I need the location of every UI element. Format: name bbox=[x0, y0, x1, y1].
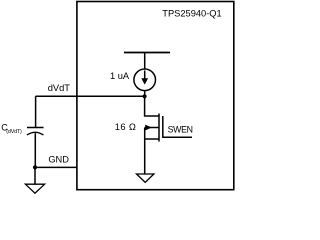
wire capacitor top lead bbox=[35, 96, 37, 127]
svg-text:(dVdT): (dVdT) bbox=[6, 129, 22, 135]
transistor Q1 drain stub bbox=[144, 115, 159, 117]
wire to external ground bbox=[34, 167, 36, 184]
svg-text:SWEN: SWEN bbox=[168, 124, 193, 134]
svg-text:TPS25940-Q1: TPS25940-Q1 bbox=[162, 8, 221, 18]
transistor Q1 body stub bbox=[145, 127, 159, 129]
transistor Q1 source stub bbox=[145, 138, 159, 140]
transistor Q1 body arrow bbox=[145, 125, 152, 131]
wire capacitor bottom lead bbox=[34, 133, 36, 167]
wire body-source tie to ground bbox=[144, 128, 146, 175]
svg-text:dVdT: dVdT bbox=[48, 83, 71, 93]
wire gate lead SWEN net bbox=[163, 136, 192, 138]
transistor Q1 channel bbox=[158, 114, 160, 142]
wire node to drain bbox=[144, 96, 146, 116]
node junction dot bbox=[143, 94, 147, 98]
svg-text:16 Ω: 16 Ω bbox=[115, 121, 136, 132]
wire dVdT pin to node bbox=[36, 95, 145, 97]
transistor Q1 gate plate bbox=[162, 116, 164, 138]
capacitor C(dVdT) bbox=[27, 128, 44, 136]
internal supply rail bbox=[124, 52, 170, 54]
node GND junction dot bbox=[33, 165, 37, 169]
wire current source to node bbox=[144, 91, 146, 97]
wire rail to current source bbox=[144, 53, 146, 70]
wire GND pin bbox=[35, 166, 77, 168]
ground external bbox=[25, 184, 44, 193]
svg-text:1 uA: 1 uA bbox=[110, 71, 130, 81]
current source I1 1uA bbox=[134, 69, 156, 91]
svg-text:GND: GND bbox=[48, 155, 69, 165]
IC U1 TPS25940-Q1 boundary bbox=[77, 2, 234, 190]
ground internal bbox=[137, 174, 154, 182]
